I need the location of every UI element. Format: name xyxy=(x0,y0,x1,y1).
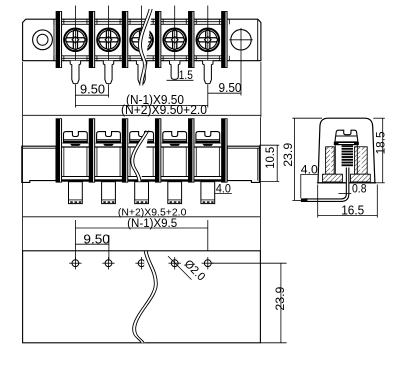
dimension 9.50 (footprint) xyxy=(75,235,109,260)
top view: cavity wall ticks xyxy=(54,19,230,61)
front view: body lower inner line xyxy=(56,176,228,178)
top view: screw terminal 1 xyxy=(64,29,87,52)
top view: solder pin 1 xyxy=(70,61,80,84)
top view: barrier wall 4 xyxy=(155,11,161,68)
top view: terminal centerlines xyxy=(75,6,207,61)
dimension 23.9 (footprint) xyxy=(212,263,287,343)
section view: right hatched wall xyxy=(355,147,368,174)
footprint: hole 3 xyxy=(135,257,147,269)
svg-text:(N+2)X9.5+2.0: (N+2)X9.5+2.0 xyxy=(118,207,187,219)
section view: left hatched wall xyxy=(326,147,335,174)
front view: screw head profile 4 xyxy=(162,132,188,146)
top view: left mounting hole inner circle xyxy=(37,34,48,45)
dimension (N+2)X9.50+2.0 (top view) xyxy=(23,62,261,117)
section view: pin end tip xyxy=(301,198,308,202)
top view: step line top xyxy=(56,21,228,23)
front view: barrier wall 2 xyxy=(89,118,95,182)
front view: solder pin 2 xyxy=(102,182,116,204)
dimension (N+2)X9.5+2.0 (footprint) xyxy=(23,216,261,218)
svg-text:1.5: 1.5 xyxy=(179,70,193,82)
top view: solder pin 5 xyxy=(203,61,213,84)
front view: cavity wall ticks xyxy=(64,147,220,177)
svg-text:4.0: 4.0 xyxy=(216,184,231,196)
top view: screw terminal 2 xyxy=(97,29,120,52)
top view: left end plate inner edge xyxy=(53,19,55,61)
front view: screw head profile 5 xyxy=(195,132,221,146)
footprint: break line squiggle xyxy=(133,251,158,343)
dimension (N-1)X9.5 (footprint) xyxy=(75,220,207,260)
front view: solder pin 5 xyxy=(201,182,215,204)
top view: barrier wall 3 xyxy=(122,11,128,68)
top view: inner cavity top edge line xyxy=(56,23,228,25)
front view: body bottom band xyxy=(56,179,228,181)
front view: solder pin 1 xyxy=(69,182,83,204)
section view: body outline xyxy=(318,118,375,183)
front view: barrier wall 6 xyxy=(221,118,227,182)
top view: screw terminal 5 xyxy=(197,29,220,52)
top view: solder pin 3 xyxy=(136,61,146,84)
section view: screw washer band xyxy=(334,142,359,145)
top view: screw terminal 4 xyxy=(163,29,186,52)
footprint: right extension line xyxy=(259,117,261,251)
top view: step line bottom xyxy=(56,57,228,59)
footprint: left extension line xyxy=(22,117,24,251)
dimension 9.50 right (top view) xyxy=(208,52,241,96)
front view: barrier wall 1 xyxy=(56,118,62,182)
front view: screw head profile 2 xyxy=(96,132,122,146)
top view: right mounting hole crosshair xyxy=(229,39,253,41)
dimension 1.5 pin width (top view) xyxy=(167,79,194,81)
dimension 4.0 pin length (front view) xyxy=(215,193,232,195)
svg-text:0.8: 0.8 xyxy=(352,181,367,195)
front view: barrier wall 3 xyxy=(122,118,128,182)
front view: left end cap xyxy=(22,146,56,182)
svg-text:18.5: 18.5 xyxy=(374,131,388,154)
front view: barrier wall 4 xyxy=(155,118,161,182)
footprint: hole 5 xyxy=(202,257,214,269)
top view: barrier wall 1 xyxy=(56,11,62,68)
svg-text:9.50: 9.50 xyxy=(80,83,105,97)
front view: barrier wall 5 xyxy=(188,118,194,182)
section view: left hatched foot xyxy=(323,174,343,182)
svg-text:(N-1)X9.5: (N-1)X9.5 xyxy=(127,218,177,230)
section view: body bottom line xyxy=(317,182,376,184)
svg-text:23.9: 23.9 xyxy=(281,142,295,166)
top view: break line squiggle xyxy=(138,9,152,86)
footprint: hole 4 xyxy=(169,257,181,269)
svg-text:9.50: 9.50 xyxy=(219,81,242,95)
svg-text:4.0: 4.0 xyxy=(301,162,318,176)
dimension 0.8 pin thickness (section view) xyxy=(339,192,352,194)
footprint: PCB outline rectangle xyxy=(23,251,261,343)
front view: body top edge xyxy=(56,146,228,148)
top view: screw terminal 3 xyxy=(130,29,153,52)
front view: left end cap top inner line xyxy=(22,147,56,149)
dimension 23.9 overall height (section view) xyxy=(292,118,322,200)
section view: right hatched foot xyxy=(351,174,371,182)
dimension 18.5 body height (section view) xyxy=(373,118,385,183)
top view: solder pin 2 xyxy=(103,61,113,84)
front view: solder pin 4 xyxy=(168,182,182,204)
front view: right end cap inner edge xyxy=(257,148,259,180)
section view: clamp cage side lines xyxy=(334,145,336,174)
top view: right end plate inner edge xyxy=(257,19,259,61)
svg-text:9.50: 9.50 xyxy=(83,232,110,246)
top view: inner cavity bottom edge line xyxy=(56,55,228,57)
top view: terminal block body outline xyxy=(23,19,261,61)
dimension diameter 2.0 leader (footprint) xyxy=(168,256,192,280)
dimension (N-1)X9.50 (top view) xyxy=(75,96,207,108)
top view: left mounting hole outer circle xyxy=(33,30,53,50)
svg-text:23.9: 23.9 xyxy=(273,286,287,310)
svg-text:(N+2)X9.50+2.0: (N+2)X9.50+2.0 xyxy=(121,103,207,117)
top view: barrier wall 6 xyxy=(221,11,227,68)
section view: bent wire clamp pin xyxy=(305,168,348,201)
front view: right end cap top inner line xyxy=(227,147,259,149)
section view: screw head profile xyxy=(334,130,359,145)
top view: barrier wall 2 xyxy=(89,11,95,68)
front view: break line squiggle xyxy=(131,130,149,181)
dimension 10.5 body height (front view) xyxy=(259,145,279,181)
top view: barrier wall 5 xyxy=(188,11,194,68)
front view: solder pin 3 xyxy=(135,182,149,204)
svg-text:16.5: 16.5 xyxy=(341,203,364,217)
footprint: hole 1 xyxy=(69,257,81,269)
section view: screw shaft with threads xyxy=(342,145,353,167)
svg-text:10.5: 10.5 xyxy=(263,146,277,168)
front view: screw head profile 3 xyxy=(129,132,155,146)
top view: right mounting hole circle xyxy=(231,30,251,50)
footprint: hole 2 xyxy=(102,257,114,269)
front view: screw head profile 1 xyxy=(62,132,88,146)
dimension 16.5 body width (section view) xyxy=(318,185,378,218)
front view: right end cap xyxy=(227,146,259,182)
dimension 9.50 left (top view) xyxy=(75,85,108,98)
dimension 4.0 (section view) xyxy=(300,175,317,199)
top view: solder pin 4 xyxy=(170,61,180,80)
